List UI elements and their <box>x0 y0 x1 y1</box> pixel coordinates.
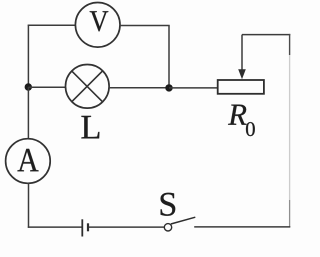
wire top-left horizontal (V loop left) <box>28 24 76 26</box>
switch S <box>164 217 195 231</box>
rheostat R0 body <box>218 80 264 94</box>
wire bottom to battery <box>28 226 82 228</box>
wire left vertical upper (junction to top corner) <box>27 25 29 88</box>
wire right vertical (scan-faded) <box>289 34 291 227</box>
wire switch to right corner <box>194 226 290 228</box>
wire V-loop right vertical <box>168 26 170 89</box>
wire top-right horizontal to right edge <box>242 34 290 36</box>
lamp L <box>66 65 110 109</box>
wire top-right horizontal (V loop right) <box>120 25 170 27</box>
voltmeter V <box>75 3 120 48</box>
label L <box>81 116 99 138</box>
wire left vertical lower (ammeter to bottom corner) <box>28 183 30 228</box>
node junction right <box>165 84 172 91</box>
wire lamp row middle segment <box>109 87 169 89</box>
label S <box>161 193 176 216</box>
wire battery to switch <box>89 226 164 228</box>
battery cell <box>82 219 88 236</box>
node junction left <box>25 83 32 90</box>
wire lamp row left segment <box>28 86 66 88</box>
rheostat wiper arrow <box>238 35 246 80</box>
ammeter A <box>6 139 51 184</box>
wire left vertical middle (junction to ammeter) <box>27 87 29 139</box>
wire lamp row to rheostat <box>169 87 218 89</box>
label R0 <box>228 105 255 137</box>
